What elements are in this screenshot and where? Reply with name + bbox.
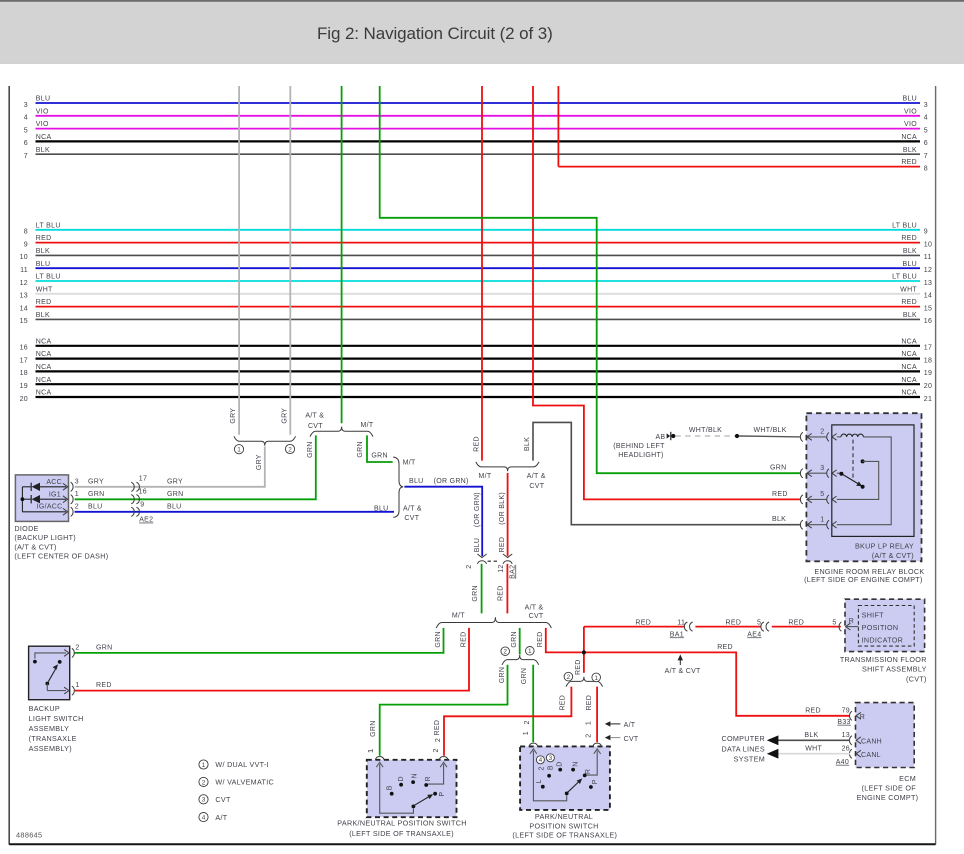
svg-text:5: 5 bbox=[924, 127, 928, 134]
svg-text:LT BLU: LT BLU bbox=[36, 274, 61, 281]
ECM block bbox=[849, 703, 914, 768]
svg-text:B33: B33 bbox=[837, 719, 850, 726]
svg-text:WHT/BLK: WHT/BLK bbox=[754, 427, 787, 434]
svg-text:COMPUTER: COMPUTER bbox=[721, 734, 765, 743]
GRN split brace options 2,1 bbox=[501, 647, 539, 665]
svg-text:R: R bbox=[585, 769, 592, 774]
right P/N switch internals bbox=[533, 751, 598, 801]
connector AE2 bbox=[131, 475, 183, 523]
svg-text:1: 1 bbox=[586, 721, 593, 725]
svg-text:BLK: BLK bbox=[903, 312, 917, 319]
title bbox=[317, 24, 553, 43]
svg-text:AE2: AE2 bbox=[139, 517, 153, 524]
svg-text:NCA: NCA bbox=[36, 134, 52, 141]
svg-text:2: 2 bbox=[75, 503, 79, 510]
svg-text:(A/T & CVT): (A/T & CVT) bbox=[14, 542, 56, 551]
svg-text:BLK: BLK bbox=[772, 516, 786, 523]
svg-text:RED: RED bbox=[726, 619, 742, 626]
legend option 2 W/ VALVEMATIC bbox=[199, 777, 274, 786]
svg-text:HEADLIGHT): HEADLIGHT) bbox=[618, 452, 663, 459]
svg-text:3: 3 bbox=[75, 479, 79, 486]
svg-text:SYSTEM: SYSTEM bbox=[734, 755, 765, 764]
svg-text:2: 2 bbox=[288, 446, 292, 453]
svg-text:1: 1 bbox=[202, 762, 206, 769]
backup light switch assembly block bbox=[29, 646, 70, 700]
bottom page border bbox=[9, 843, 935, 845]
svg-text:P: P bbox=[439, 792, 446, 797]
caption computer data lines system bbox=[721, 734, 765, 764]
svg-text:CVT: CVT bbox=[529, 613, 544, 620]
wire BLK (A/T&CVT) up-over to relay pin 1 bbox=[524, 422, 801, 524]
GRN split brace A/T&CVT vs M/T bbox=[305, 413, 374, 437]
svg-text:AE4: AE4 bbox=[747, 631, 761, 638]
svg-text:BLK: BLK bbox=[524, 437, 531, 451]
svg-text:GRN: GRN bbox=[357, 441, 364, 457]
svg-text:488645: 488645 bbox=[16, 831, 42, 840]
wire GRY vertical 2 bbox=[281, 86, 290, 435]
svg-text:GRY: GRY bbox=[88, 479, 104, 486]
svg-text:13: 13 bbox=[20, 293, 28, 300]
svg-text:(LEFT CENTER OF DASH): (LEFT CENTER OF DASH) bbox=[14, 552, 108, 561]
svg-text:3: 3 bbox=[24, 102, 28, 109]
svg-text:POSITION SWITCH: POSITION SWITCH bbox=[529, 821, 598, 830]
diode block bbox=[15, 475, 68, 522]
svg-text:7: 7 bbox=[24, 153, 28, 160]
wire RED to ECM pin 79 bbox=[805, 707, 851, 725]
svg-text:VIO: VIO bbox=[36, 108, 49, 115]
svg-text:BACKUP: BACKUP bbox=[29, 704, 60, 713]
svg-text:SHIFT ASSEMBLY: SHIFT ASSEMBLY bbox=[862, 665, 927, 674]
svg-text:12: 12 bbox=[498, 564, 505, 572]
svg-text:9: 9 bbox=[924, 229, 928, 236]
svg-text:3: 3 bbox=[549, 755, 553, 762]
diode D2 (IG1) bbox=[22, 495, 66, 503]
wire RED BA2 down to split brace bbox=[497, 564, 507, 614]
svg-text:RED: RED bbox=[537, 632, 544, 648]
svg-text:BA2: BA2 bbox=[509, 565, 516, 579]
svg-text:NCA: NCA bbox=[901, 134, 917, 141]
wire 4/4 VIO bbox=[24, 108, 928, 121]
svg-text:2: 2 bbox=[524, 720, 531, 724]
caption backup light switch bbox=[29, 704, 84, 753]
svg-text:W/ DUAL VVT-I: W/ DUAL VVT-I bbox=[215, 760, 269, 769]
wire 17/18 NCA bbox=[20, 351, 933, 364]
svg-text:BLK: BLK bbox=[36, 312, 50, 319]
svg-text:13: 13 bbox=[842, 732, 850, 739]
svg-text:A/T &: A/T & bbox=[525, 604, 544, 611]
svg-text:RED: RED bbox=[788, 619, 804, 626]
wire 8 RED (right only) bbox=[558, 159, 928, 172]
svg-text:RED: RED bbox=[460, 632, 467, 648]
relay inner pin arrows bbox=[807, 433, 837, 530]
svg-text:1: 1 bbox=[528, 648, 532, 655]
wire 16/17 NCA bbox=[20, 338, 933, 351]
svg-text:NCA: NCA bbox=[901, 338, 917, 345]
svg-text:GRN: GRN bbox=[521, 668, 528, 684]
svg-text:2: 2 bbox=[586, 733, 593, 737]
svg-text:BKUP LP RELAY: BKUP LP RELAY bbox=[855, 542, 914, 551]
RED/BLK merge brace M/T vs A/T&CVT bbox=[476, 462, 546, 490]
wire 5/5 VIO bbox=[24, 121, 928, 134]
svg-text:1: 1 bbox=[75, 491, 79, 498]
wire RED to shift position indicator bbox=[584, 619, 841, 638]
svg-text:CVT: CVT bbox=[404, 515, 419, 522]
svg-text:ACC: ACC bbox=[46, 479, 62, 486]
svg-text:NCA: NCA bbox=[901, 351, 917, 358]
relay switch contacts bbox=[837, 459, 879, 499]
svg-text:3: 3 bbox=[924, 102, 928, 109]
wire GRN branch M/T to brace bbox=[357, 435, 392, 462]
svg-text:RED: RED bbox=[717, 644, 733, 651]
svg-text:D: D bbox=[398, 776, 405, 781]
connector AE4 bbox=[761, 622, 769, 631]
caption right P/N switch bbox=[512, 812, 617, 840]
svg-text:GRN: GRN bbox=[96, 645, 112, 652]
svg-text:VIO: VIO bbox=[36, 121, 49, 128]
svg-text:11: 11 bbox=[20, 267, 28, 274]
wire 18/19 NCA bbox=[20, 364, 933, 377]
svg-text:LIGHT SWITCH: LIGHT SWITCH bbox=[29, 714, 84, 723]
connector BA2 bbox=[466, 554, 516, 579]
wire BLU (OR GRN) from curly brace down to connector BA2 bbox=[404, 478, 482, 556]
connector BA1 bbox=[684, 622, 692, 631]
svg-text:RED: RED bbox=[473, 436, 480, 452]
svg-text:R: R bbox=[849, 618, 854, 625]
svg-text:16: 16 bbox=[924, 318, 932, 325]
svg-text:TRANSMISSION FLOOR: TRANSMISSION FLOOR bbox=[840, 655, 927, 664]
svg-text:(LEFT SIDE OF TRANSAXLE): (LEFT SIDE OF TRANSAXLE) bbox=[512, 831, 617, 840]
svg-text:17: 17 bbox=[924, 345, 932, 352]
svg-text:17: 17 bbox=[139, 475, 147, 482]
svg-text:NCA: NCA bbox=[36, 338, 52, 345]
wire RED vertical to relay pin 5 bbox=[533, 86, 800, 499]
svg-text:NCA: NCA bbox=[901, 390, 917, 397]
curly brace merging GRN(M/T)+BLU(A/T&CVT) bbox=[374, 457, 422, 522]
wire 9/10 RED bbox=[24, 235, 932, 248]
legend option 1 W/ DUAL VVT-I bbox=[199, 760, 269, 769]
svg-text:4: 4 bbox=[202, 815, 206, 822]
svg-text:RED: RED bbox=[499, 537, 506, 553]
svg-text:2: 2 bbox=[202, 779, 206, 786]
svg-text:VIO: VIO bbox=[904, 121, 917, 128]
wire WHT/BLK solid to relay pin 2 bbox=[739, 427, 800, 437]
wire 19/20 NCA bbox=[20, 377, 933, 390]
svg-text:WHT: WHT bbox=[36, 286, 53, 293]
svg-text:ECM: ECM bbox=[899, 774, 916, 783]
svg-text:GRN: GRN bbox=[770, 465, 786, 472]
svg-text:RED: RED bbox=[559, 695, 566, 711]
svg-text:LT BLU: LT BLU bbox=[892, 222, 917, 229]
wire RED junction network bbox=[575, 627, 849, 716]
svg-text:(BEHIND LEFT: (BEHIND LEFT bbox=[613, 443, 665, 450]
svg-text:BLK: BLK bbox=[903, 147, 917, 154]
svg-text:D: D bbox=[556, 761, 563, 766]
svg-text:6: 6 bbox=[924, 140, 928, 147]
svg-text:WHT: WHT bbox=[900, 286, 917, 293]
svg-text:W/ VALVEMATIC: W/ VALVEMATIC bbox=[215, 778, 274, 787]
svg-text:BLU: BLU bbox=[902, 261, 917, 268]
svg-text:DATA LINES: DATA LINES bbox=[722, 744, 765, 753]
svg-text:12: 12 bbox=[924, 267, 932, 274]
svg-text:INDICATOR: INDICATOR bbox=[862, 635, 904, 644]
annotation A/T & CVT arrow bbox=[665, 654, 701, 675]
svg-text:A/T &: A/T & bbox=[305, 413, 324, 420]
svg-text:GRN: GRN bbox=[472, 585, 479, 601]
svg-text:15: 15 bbox=[924, 305, 932, 312]
svg-text:NCA: NCA bbox=[36, 364, 52, 371]
svg-text:CVT: CVT bbox=[308, 423, 323, 430]
svg-text:1: 1 bbox=[820, 516, 824, 523]
svg-text:NCA: NCA bbox=[36, 377, 52, 384]
svg-text:16: 16 bbox=[139, 489, 147, 496]
svg-text:B: B bbox=[386, 785, 393, 790]
svg-text:IG/ACC: IG/ACC bbox=[37, 504, 63, 511]
svg-text:10: 10 bbox=[924, 241, 932, 248]
svg-text:1: 1 bbox=[75, 682, 79, 689]
shift position indicator block bbox=[839, 599, 925, 651]
svg-text:GRY: GRY bbox=[230, 408, 237, 424]
svg-text:18: 18 bbox=[924, 357, 932, 364]
svg-text:(CVT): (CVT) bbox=[906, 674, 927, 683]
svg-text:21: 21 bbox=[924, 396, 932, 403]
svg-text:1: 1 bbox=[368, 749, 375, 753]
svg-text:11: 11 bbox=[924, 254, 932, 261]
diode D1 (ACC) bbox=[22, 483, 66, 491]
svg-text:10: 10 bbox=[20, 254, 28, 261]
svg-text:N: N bbox=[412, 773, 419, 778]
svg-text:12: 12 bbox=[20, 280, 28, 287]
svg-text:2: 2 bbox=[503, 649, 507, 656]
svg-text:20: 20 bbox=[20, 396, 28, 403]
svg-text:GRN: GRN bbox=[371, 452, 387, 459]
left P/N switch internals bbox=[380, 764, 446, 813]
svg-text:CVT: CVT bbox=[215, 795, 231, 804]
svg-text:BLU: BLU bbox=[167, 503, 182, 510]
svg-text:9: 9 bbox=[24, 241, 28, 248]
svg-text:P: P bbox=[592, 779, 599, 784]
svg-text:ENGINE COMPT): ENGINE COMPT) bbox=[857, 793, 919, 802]
svg-text:CVT: CVT bbox=[624, 736, 639, 743]
svg-text:BA1: BA1 bbox=[670, 631, 684, 638]
svg-text:5: 5 bbox=[832, 619, 836, 626]
GRY merge brace with options 1,2 bbox=[234, 436, 296, 454]
svg-text:RED: RED bbox=[586, 695, 593, 711]
wire RED (OR BLK) down to connector BA2 bbox=[499, 473, 508, 556]
caption ECM bbox=[857, 774, 919, 802]
svg-text:15: 15 bbox=[20, 318, 28, 325]
svg-text:4: 4 bbox=[539, 757, 543, 764]
svg-text:26: 26 bbox=[842, 745, 850, 752]
wire RED option2 to left P/N switch pin 2 bbox=[434, 687, 571, 756]
svg-text:ASSEMBLY: ASSEMBLY bbox=[29, 724, 70, 733]
svg-text:RED: RED bbox=[36, 299, 52, 306]
svg-text:CANH: CANH bbox=[861, 739, 882, 746]
wire 14/15 RED bbox=[20, 299, 933, 312]
svg-text:R: R bbox=[860, 714, 865, 721]
svg-text:BLK: BLK bbox=[903, 248, 917, 255]
svg-text:GRN: GRN bbox=[307, 441, 314, 457]
svg-text:9: 9 bbox=[140, 502, 144, 509]
diode pins 3,1,2 bbox=[63, 479, 105, 517]
svg-text:M/T: M/T bbox=[403, 460, 416, 467]
svg-text:NCA: NCA bbox=[901, 364, 917, 371]
footer figure number bbox=[16, 831, 42, 840]
svg-text:BLU: BLU bbox=[36, 261, 51, 268]
svg-text:2: 2 bbox=[433, 748, 440, 752]
svg-text:4: 4 bbox=[24, 115, 28, 122]
svg-text:(BACKUP LIGHT): (BACKUP LIGHT) bbox=[14, 533, 76, 542]
svg-text:PARK/NEUTRAL: PARK/NEUTRAL bbox=[535, 812, 593, 821]
svg-text:RED: RED bbox=[901, 299, 917, 306]
svg-text:(OR BLK): (OR BLK) bbox=[499, 492, 506, 525]
svg-text:M/T: M/T bbox=[479, 473, 492, 480]
svg-text:POSITION: POSITION bbox=[862, 623, 899, 632]
svg-text:AB: AB bbox=[655, 434, 665, 441]
svg-text:RED: RED bbox=[772, 491, 788, 498]
wire GRN branch A/T&CVT to diode pin 1 bbox=[75, 435, 316, 499]
wire GRN vertical 2 over to relay pin 3 bbox=[380, 86, 801, 473]
svg-text:18: 18 bbox=[20, 370, 28, 377]
svg-text:BLK: BLK bbox=[36, 147, 50, 154]
svg-text:(OR GRN): (OR GRN) bbox=[434, 478, 469, 485]
svg-text:CANL: CANL bbox=[861, 752, 881, 759]
svg-text:A/T: A/T bbox=[624, 722, 636, 729]
svg-text:A40: A40 bbox=[836, 759, 849, 766]
wire GRN option2 to left P/N switch pin 1 bbox=[368, 665, 528, 756]
svg-text:NCA: NCA bbox=[901, 377, 917, 384]
engine room relay block bbox=[806, 413, 921, 561]
wire BLK CANH bbox=[767, 732, 850, 745]
svg-text:PARK/NEUTRAL POSITION SWITCH: PARK/NEUTRAL POSITION SWITCH bbox=[337, 819, 466, 828]
wire 15/16 BLK bbox=[20, 312, 933, 325]
left P/N switch pins bbox=[368, 748, 448, 767]
svg-text:8: 8 bbox=[924, 165, 928, 172]
svg-text:(TRANSAXLE: (TRANSAXLE bbox=[29, 734, 77, 743]
header bar bbox=[0, 1, 964, 64]
svg-text:19: 19 bbox=[924, 370, 932, 377]
wire GRN branch to backup light switch bbox=[75, 628, 444, 653]
annotation arrows A/T and CVT bbox=[605, 721, 639, 743]
caption engine room relay block bbox=[804, 567, 924, 584]
svg-text:2: 2 bbox=[820, 429, 824, 436]
svg-text:WHT: WHT bbox=[805, 745, 822, 752]
svg-text:RED: RED bbox=[901, 159, 917, 166]
wire RED option1 to right P/N switch bbox=[586, 687, 598, 743]
svg-text:GRY: GRY bbox=[167, 479, 183, 486]
svg-text:BLU: BLU bbox=[902, 96, 917, 103]
svg-text:13: 13 bbox=[924, 280, 932, 287]
svg-text:GRY: GRY bbox=[281, 408, 288, 424]
legend option 3 CVT bbox=[199, 795, 231, 804]
svg-text:BLU: BLU bbox=[36, 96, 51, 103]
svg-text:DIODE: DIODE bbox=[14, 524, 38, 533]
caption bkup lp relay bbox=[855, 542, 914, 561]
park/neutral position switch (right) block bbox=[520, 746, 610, 810]
wire 20/21 NCA bbox=[20, 390, 933, 403]
svg-text:GRN: GRN bbox=[511, 631, 518, 647]
svg-text:BLK: BLK bbox=[804, 732, 818, 739]
svg-text:RED: RED bbox=[434, 720, 441, 736]
svg-text:RED: RED bbox=[96, 682, 112, 689]
svg-text:16: 16 bbox=[20, 345, 28, 352]
svg-text:2: 2 bbox=[75, 645, 79, 652]
svg-text:20: 20 bbox=[924, 383, 932, 390]
wire 6/6 NCA bbox=[24, 134, 928, 147]
wire GRN vertical 1 bbox=[341, 86, 343, 423]
left page border bbox=[8, 86, 10, 845]
svg-text:A/T &: A/T & bbox=[527, 473, 546, 480]
svg-text:NCA: NCA bbox=[36, 390, 52, 397]
svg-text:N: N bbox=[572, 761, 579, 766]
wire 13/14 WHT bbox=[20, 286, 933, 299]
svg-text:(OR GRN): (OR GRN) bbox=[474, 492, 481, 527]
node AB (behind left headlight) bbox=[613, 432, 675, 459]
wire 10/11 BLK bbox=[20, 248, 932, 261]
legend option 4 A/T bbox=[199, 813, 228, 822]
backup switch pins 2,1 bbox=[64, 645, 112, 696]
svg-text:(A/T & CVT): (A/T & CVT) bbox=[872, 551, 914, 560]
caption transmission floor shift assembly bbox=[840, 655, 927, 684]
svg-text:79: 79 bbox=[842, 707, 850, 714]
svg-text:RED: RED bbox=[635, 619, 651, 626]
svg-text:A/T: A/T bbox=[215, 813, 227, 822]
svg-text:2: 2 bbox=[567, 674, 571, 681]
svg-text:2: 2 bbox=[539, 766, 546, 770]
svg-text:GRN: GRN bbox=[167, 491, 183, 498]
svg-text:14: 14 bbox=[924, 293, 932, 300]
wire GRN BA2 down to split brace bbox=[472, 564, 481, 614]
svg-text:3: 3 bbox=[202, 797, 206, 804]
svg-text:RED: RED bbox=[901, 235, 917, 242]
svg-text:SHIFT: SHIFT bbox=[862, 610, 885, 619]
svg-text:1: 1 bbox=[523, 731, 530, 735]
svg-text:L: L bbox=[536, 779, 543, 783]
svg-text:3: 3 bbox=[820, 465, 824, 472]
RED split brace options 2,1 bbox=[564, 672, 602, 686]
split brace M/T vs A/T&CVT (4 branches) bbox=[436, 604, 551, 628]
wire RED vertical (M/T) bbox=[473, 86, 482, 461]
svg-text:1: 1 bbox=[594, 675, 598, 682]
svg-text:5: 5 bbox=[820, 491, 824, 498]
caption diode bbox=[14, 524, 108, 561]
svg-text:A/T &: A/T & bbox=[403, 506, 422, 513]
right page border bbox=[935, 86, 937, 845]
svg-text:GRN: GRN bbox=[88, 491, 104, 498]
wire 7/7 BLK bbox=[24, 147, 928, 160]
svg-text:(LEFT SIDE OF ENGINE COMPT): (LEFT SIDE OF ENGINE COMPT) bbox=[804, 575, 923, 584]
wire 8/9 LT BLU bbox=[24, 222, 928, 235]
svg-text:VIO: VIO bbox=[904, 108, 917, 115]
wire 11/12 BLU bbox=[20, 261, 932, 274]
svg-text:(LEFT SIDE OF TRANSAXLE): (LEFT SIDE OF TRANSAXLE) bbox=[349, 829, 454, 838]
svg-text:7: 7 bbox=[924, 153, 928, 160]
wire GRY vertical 1 bbox=[230, 86, 239, 435]
svg-text:GRY: GRY bbox=[256, 454, 263, 470]
caption left P/N switch bbox=[337, 819, 466, 838]
svg-text:A/T & CVT: A/T & CVT bbox=[665, 668, 701, 675]
svg-text:WHT/BLK: WHT/BLK bbox=[689, 427, 722, 434]
relay coil circuit bbox=[837, 434, 891, 525]
wire RED branch to junction bbox=[537, 628, 582, 653]
svg-text:1: 1 bbox=[237, 447, 241, 454]
svg-text:M/T: M/T bbox=[361, 422, 374, 429]
park/neutral position switch (left) block bbox=[367, 760, 457, 817]
wire BLU diode pin2 to curly brace bbox=[75, 511, 394, 513]
svg-text:19: 19 bbox=[20, 383, 28, 390]
svg-text:BLU: BLU bbox=[88, 503, 103, 510]
wire GRN option1 to right P/N switch bbox=[523, 665, 533, 742]
svg-text:8: 8 bbox=[24, 229, 28, 236]
